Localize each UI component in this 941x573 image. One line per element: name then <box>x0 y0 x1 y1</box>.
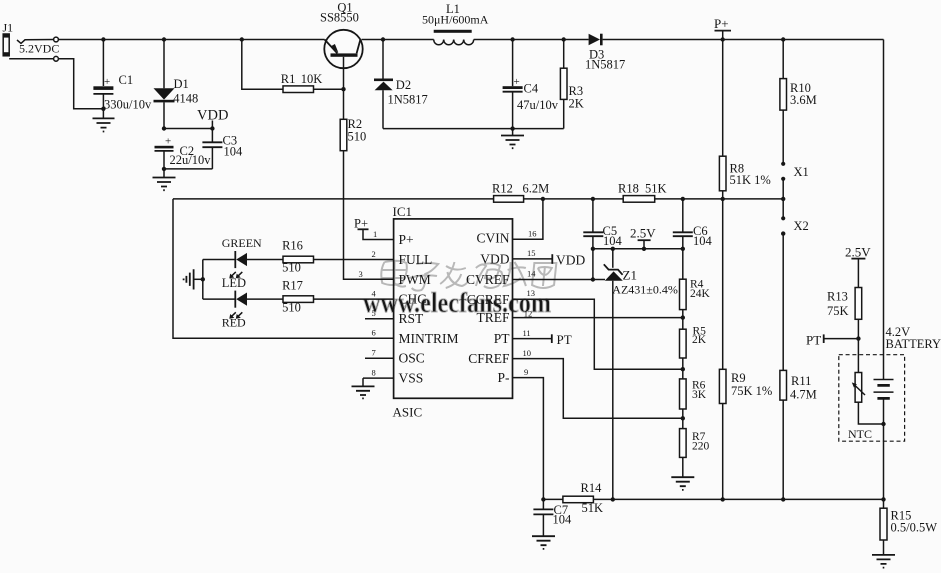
svg-text:104: 104 <box>553 513 573 527</box>
capacitor C6 <box>673 199 713 279</box>
svg-text:104: 104 <box>224 144 244 158</box>
svg-text:CCREF: CCREF <box>467 292 510 307</box>
wire LED branch vertical <box>202 260 204 300</box>
ground (VSS) <box>352 386 375 398</box>
WATERMARK <box>363 261 557 319</box>
svg-text:MINTRIM: MINTRIM <box>399 331 459 346</box>
svg-text:13: 13 <box>527 288 536 298</box>
wire D2 anode to R3 bottom <box>383 128 564 130</box>
ground (C4) <box>501 136 524 149</box>
svg-text:CHG: CHG <box>399 292 428 307</box>
svg-text:14: 14 <box>527 269 536 279</box>
node P+ (top) <box>714 16 731 40</box>
svg-text:220: 220 <box>692 441 710 453</box>
wire R2 to PWM pin <box>344 199 394 279</box>
svg-text:P+: P+ <box>399 232 414 247</box>
svg-text:12: 12 <box>524 309 533 319</box>
svg-text:P+: P+ <box>714 16 729 31</box>
wire CVIN link <box>513 199 543 239</box>
svg-text:2: 2 <box>372 249 376 259</box>
svg-text:NTC: NTC <box>848 427 872 441</box>
svg-text:Z1: Z1 <box>623 267 637 282</box>
svg-text:D2: D2 <box>396 78 411 92</box>
svg-text:TREF: TREF <box>476 310 509 325</box>
resistor R2 <box>340 89 366 199</box>
wire VSS to ground <box>363 378 394 386</box>
node 2.5V terminal <box>630 226 656 249</box>
resistor R9 <box>719 369 772 499</box>
transistor Q1 <box>320 1 363 90</box>
svg-text:RED: RED <box>222 315 246 329</box>
svg-text:3.6M: 3.6M <box>790 93 817 107</box>
svg-text:330u/10v: 330u/10v <box>104 98 152 112</box>
svg-text:ASIC: ASIC <box>393 405 423 420</box>
svg-text:1: 1 <box>373 229 377 239</box>
svg-text:10K: 10K <box>301 72 323 86</box>
svg-text:X1: X1 <box>794 165 809 179</box>
resistor R3 <box>560 40 583 129</box>
capacitor C2 <box>155 136 212 169</box>
svg-text:5.2VDC: 5.2VDC <box>19 42 59 56</box>
pin numbers <box>359 228 537 377</box>
battery 4.2V <box>874 40 941 500</box>
svg-text:104: 104 <box>693 234 713 248</box>
svg-text:D1: D1 <box>174 77 189 91</box>
svg-text:510: 510 <box>348 130 367 144</box>
wire collector to D2/L1 <box>362 39 434 41</box>
wire CVREF to Z1 <box>513 249 606 280</box>
ground (R7) <box>671 477 694 490</box>
svg-text:6: 6 <box>372 328 376 338</box>
wire CCREF to R5/R6 node <box>513 299 683 369</box>
svg-text:+: + <box>104 76 110 88</box>
svg-text:15: 15 <box>527 248 536 258</box>
svg-text:IC1: IC1 <box>393 204 413 219</box>
resistor R7 <box>680 429 710 478</box>
svg-text:VDD: VDD <box>480 251 509 266</box>
connector J1 <box>3 21 60 62</box>
svg-text:+: + <box>514 76 520 88</box>
svg-text:RST: RST <box>399 311 425 326</box>
svg-text:R13: R13 <box>827 290 848 304</box>
ground (C7) <box>532 536 555 549</box>
node 2.5V (R13) <box>845 245 871 288</box>
svg-text:51K 1%: 51K 1% <box>730 173 771 187</box>
LED GREEN <box>203 236 283 290</box>
svg-text:0.5/0.5W: 0.5/0.5W <box>891 521 938 535</box>
svg-text:4.7M: 4.7M <box>790 388 817 402</box>
svg-text:2K: 2K <box>569 97 584 111</box>
wire CFREF to R6/R7 node <box>513 359 683 419</box>
IC IC1 (ASIC) <box>393 204 513 420</box>
wire LED-box left / MINTRIM <box>173 199 394 338</box>
node P+ (pin 1) <box>354 217 394 240</box>
resistor R10 <box>780 40 817 164</box>
svg-text:R17: R17 <box>282 278 303 292</box>
capacitor C4 <box>503 40 559 136</box>
svg-text:75K 1%: 75K 1% <box>731 384 772 398</box>
svg-text:X2: X2 <box>794 219 809 233</box>
svg-text:1N5817: 1N5817 <box>585 58 625 72</box>
svg-text:SS8550: SS8550 <box>320 11 359 25</box>
svg-text:1N5817: 1N5817 <box>388 92 428 106</box>
svg-text:R12: R12 <box>492 182 513 196</box>
ground (LED common) <box>184 269 203 289</box>
ground (C2) <box>153 178 176 191</box>
resistor R17 <box>282 278 394 314</box>
svg-text:R16: R16 <box>282 238 303 252</box>
svg-text:510: 510 <box>282 300 301 314</box>
svg-text:2.5V: 2.5V <box>630 226 656 241</box>
svg-text:LED: LED <box>222 276 246 290</box>
capacitor C3 <box>202 133 243 169</box>
svg-text:R11: R11 <box>791 374 811 388</box>
wire 2.5V rail <box>593 248 683 250</box>
svg-text:104: 104 <box>603 234 623 248</box>
resistor R5 <box>680 326 707 379</box>
svg-text:75K: 75K <box>827 304 849 318</box>
svg-text:VSS: VSS <box>399 371 424 386</box>
resistor R6 <box>680 379 707 429</box>
wire J1 sleeve to ground <box>9 59 103 109</box>
resistor R18 <box>618 182 667 203</box>
svg-text:16: 16 <box>528 228 537 238</box>
svg-text:CVREF: CVREF <box>466 272 510 287</box>
resistor R8 <box>719 40 770 370</box>
node PT (right) <box>806 333 858 348</box>
resistor R11 <box>780 370 817 499</box>
svg-text:PT: PT <box>557 332 572 347</box>
svg-text:50μH/600mA: 50μH/600mA <box>422 13 489 27</box>
svg-text:VDD: VDD <box>556 252 585 267</box>
svg-text:www.elecfans.com: www.elecfans.com <box>363 288 551 319</box>
wire mid rail <box>173 198 783 200</box>
svg-text:CVIN: CVIN <box>477 231 510 246</box>
svg-text:P+: P+ <box>354 217 368 231</box>
node X2 <box>781 216 809 370</box>
resistor R16 <box>282 238 394 274</box>
zener Z1 AZ431 <box>604 249 678 500</box>
node X1 <box>781 162 809 219</box>
ground (R15) <box>872 555 895 568</box>
svg-text:510: 510 <box>282 260 301 274</box>
svg-text:FULL: FULL <box>399 252 433 267</box>
svg-text:8: 8 <box>372 367 376 377</box>
svg-text:C4: C4 <box>524 82 539 96</box>
svg-text:R9: R9 <box>731 371 746 385</box>
svg-text:2K: 2K <box>692 334 707 346</box>
svg-text:47u/10v: 47u/10v <box>517 98 559 112</box>
wire top rail <box>58 39 324 41</box>
svg-text:3K: 3K <box>692 389 707 401</box>
wire P- to bottom rail <box>513 378 544 500</box>
svg-text:2.5V: 2.5V <box>845 245 871 260</box>
inductor L1 <box>422 2 489 45</box>
wire C2-C3 bottom <box>164 169 212 178</box>
node VDD (pin 15) <box>513 252 586 267</box>
wire RST stub <box>365 318 394 320</box>
ground (C1) <box>93 118 115 131</box>
svg-text:9: 9 <box>524 367 528 377</box>
capacitor C1 <box>93 40 152 119</box>
svg-text:PT: PT <box>494 331 511 346</box>
diode D1 <box>154 40 199 129</box>
node VDD <box>164 108 228 143</box>
svg-text:C1: C1 <box>119 73 134 87</box>
resistor R4 <box>680 278 711 329</box>
svg-text:AZ431±0.4%: AZ431±0.4% <box>612 282 678 296</box>
svg-text:+: + <box>165 136 171 148</box>
node PT (pin 11) <box>513 332 572 347</box>
svg-text:PWM: PWM <box>399 272 431 287</box>
wire TREF to R4/R5 node <box>513 317 683 319</box>
capacitor C5 <box>583 199 622 249</box>
svg-text:6.2M: 6.2M <box>523 182 550 196</box>
svg-text:5: 5 <box>372 308 376 318</box>
svg-text:OSC: OSC <box>399 351 425 366</box>
diode D2 <box>374 40 428 129</box>
resistor R13 <box>827 288 862 373</box>
svg-text:R18: R18 <box>618 182 639 196</box>
svg-text:10: 10 <box>523 348 532 358</box>
svg-text:4148: 4148 <box>173 92 198 106</box>
svg-text:22u/10v: 22u/10v <box>170 153 212 167</box>
svg-text:J1: J1 <box>3 21 14 35</box>
svg-text:11: 11 <box>523 328 531 338</box>
svg-text:24K: 24K <box>690 288 711 300</box>
wire L1 to D3 <box>474 39 589 41</box>
svg-text:3: 3 <box>359 269 363 279</box>
resistor R14 <box>563 481 603 515</box>
svg-text:R1: R1 <box>281 72 296 86</box>
svg-text:PT: PT <box>806 333 821 348</box>
thermistor NTC <box>839 355 905 442</box>
svg-text:51K: 51K <box>582 501 604 515</box>
capacitor C7 <box>533 499 572 536</box>
svg-text:P-: P- <box>497 370 510 385</box>
svg-text:CFREF: CFREF <box>468 351 510 366</box>
diode D3 <box>585 34 884 72</box>
LED RED <box>203 291 283 330</box>
svg-text:R14: R14 <box>581 481 603 495</box>
resistor R12 <box>492 182 549 203</box>
resistor R15 <box>880 499 937 555</box>
svg-text:BATTERY: BATTERY <box>886 337 941 351</box>
svg-text:7: 7 <box>372 348 376 358</box>
svg-text:GREEN: GREEN <box>222 236 262 250</box>
resistor R1 <box>242 40 343 93</box>
svg-text:51K: 51K <box>645 182 667 196</box>
wire OSC stub <box>365 357 394 359</box>
wire bottom rail <box>543 498 883 500</box>
